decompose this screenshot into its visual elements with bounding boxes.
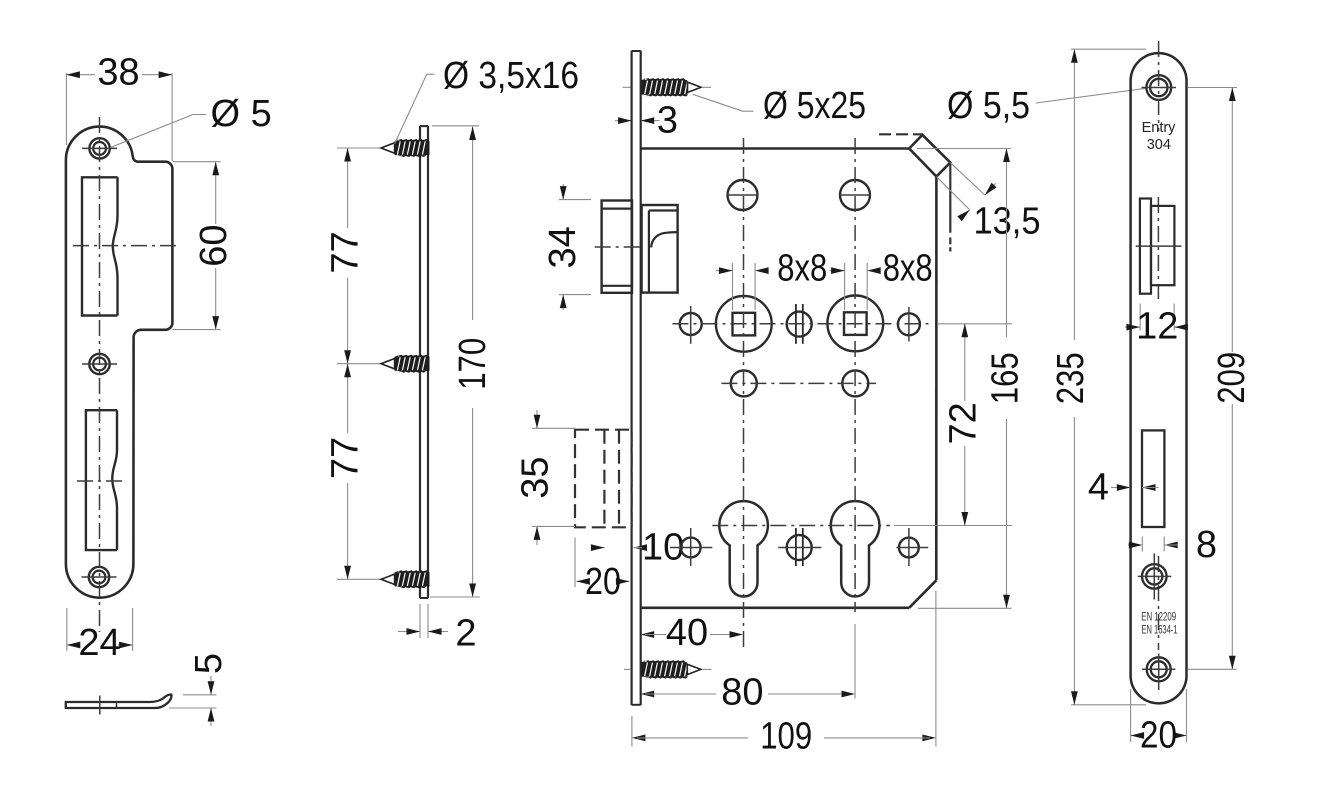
- svg-text:Ø 5x25: Ø 5x25: [763, 85, 866, 127]
- svg-text:20: 20: [585, 561, 621, 603]
- svg-text:Entry: Entry: [1142, 120, 1177, 136]
- svg-text:209: 209: [1211, 352, 1253, 404]
- svg-text:77: 77: [325, 231, 367, 273]
- svg-text:EN 1634-1: EN 1634-1: [1142, 625, 1178, 637]
- svg-text:40: 40: [666, 612, 708, 654]
- svg-text:35: 35: [514, 456, 556, 498]
- svg-text:77: 77: [325, 437, 367, 479]
- svg-text:5: 5: [188, 653, 230, 674]
- svg-text:109: 109: [760, 715, 812, 757]
- svg-text:24: 24: [78, 622, 120, 664]
- svg-text:72: 72: [942, 402, 984, 444]
- svg-text:3: 3: [657, 100, 678, 142]
- svg-text:8x8: 8x8: [883, 248, 933, 290]
- svg-text:80: 80: [721, 672, 763, 714]
- svg-text:60: 60: [193, 224, 235, 266]
- svg-text:165: 165: [985, 352, 1027, 404]
- svg-text:34: 34: [542, 226, 584, 268]
- svg-text:2: 2: [455, 613, 476, 655]
- svg-text:4: 4: [1088, 467, 1109, 509]
- svg-text:8x8: 8x8: [777, 248, 827, 290]
- svg-text:Ø 5,5: Ø 5,5: [947, 85, 1030, 127]
- svg-text:Ø 5: Ø 5: [211, 93, 272, 135]
- svg-text:38: 38: [97, 52, 139, 94]
- svg-text:EN 12209: EN 12209: [1141, 611, 1176, 623]
- svg-text:Ø 3,5x16: Ø 3,5x16: [443, 55, 579, 97]
- svg-text:170: 170: [452, 338, 494, 390]
- svg-text:12: 12: [1136, 305, 1178, 347]
- svg-text:8: 8: [1196, 524, 1217, 566]
- svg-text:235: 235: [1050, 352, 1092, 404]
- svg-text:304: 304: [1147, 137, 1171, 153]
- svg-text:20: 20: [1140, 714, 1177, 756]
